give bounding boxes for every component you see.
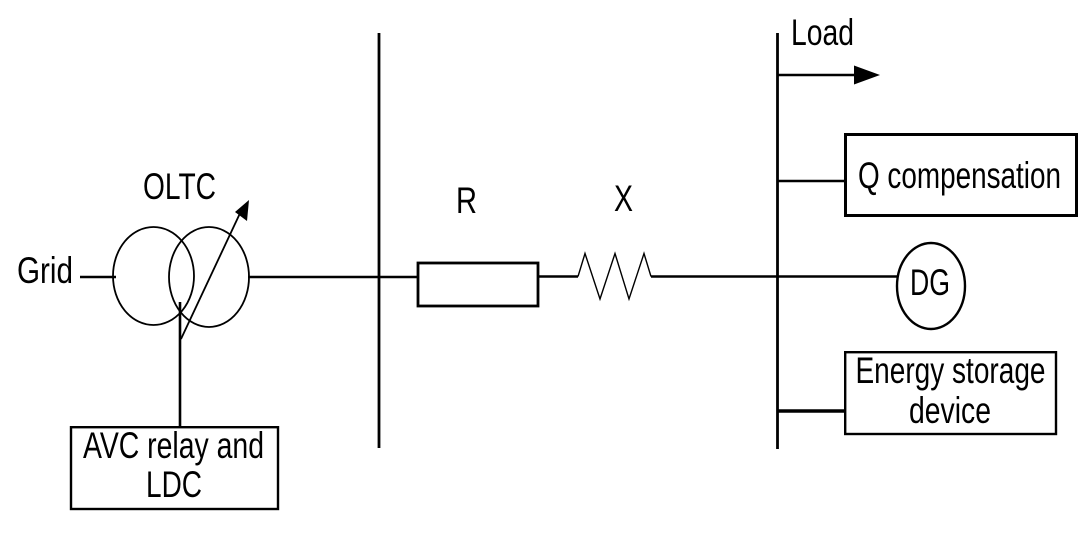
transformer OLTC primary winding circle [113,227,194,325]
transformer OLTC secondary winding circle [169,227,249,327]
svg-text:DG: DG [910,262,950,303]
svg-text:Energy storage: Energy storage [856,350,1046,391]
reactance X zigzag [578,254,651,300]
Load arrowhead [854,66,880,85]
wire reactance to bus 2 and DG [651,275,898,278]
svg-text:LDC: LDC [146,464,202,505]
bus bar 2 [776,33,779,449]
svg-text:Load: Load [791,12,854,53]
Load arrow shaft [778,74,858,77]
AVC relay and LDC box [71,427,278,509]
Energy storage device box [845,352,1056,434]
wire transformer to AVC relay [179,302,182,427]
resistor R body [418,263,538,306]
tap-changer arrow shaft [181,209,242,339]
svg-text:device: device [909,390,991,431]
svg-text:R: R [456,180,477,221]
generator DG circle [897,243,965,329]
wire bus 2 to Q compensation [778,180,844,183]
wire bus 2 to energy storage [778,409,844,412]
bus bar 1 [378,33,381,448]
svg-text:Q compensation: Q compensation [858,155,1061,196]
svg-text:Grid: Grid [17,250,73,291]
wire transformer to bus 1 and resistor [248,276,418,279]
wire Grid to transformer [80,276,116,279]
tap-changer arrowhead [235,200,249,221]
wire resistor to reactance [538,275,578,278]
svg-text:AVC relay and: AVC relay and [83,425,264,466]
Q compensation box [846,135,1077,216]
svg-text:X: X [614,178,633,219]
svg-text:OLTC: OLTC [143,166,216,207]
